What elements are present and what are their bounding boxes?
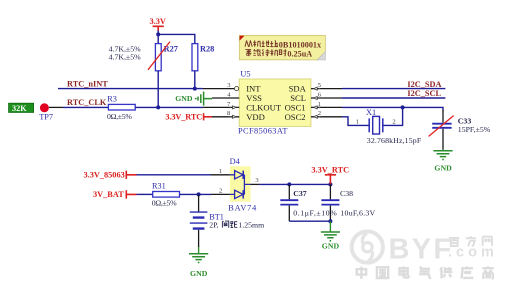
svg-text:OSC2: OSC2 xyxy=(285,112,306,122)
junction 3.3V node xyxy=(156,32,160,36)
svg-text:3V_BAT: 3V_BAT xyxy=(93,190,124,199)
note yellow sticky xyxy=(239,35,325,60)
svg-text:I2C_SCL: I2C_SCL xyxy=(407,89,441,98)
svg-text:I2C_SDA: I2C_SDA xyxy=(407,80,441,89)
capacitor C37 xyxy=(280,184,306,221)
pin 1 of D4 xyxy=(211,168,230,175)
wire 3.3V_85063 to D4 pin1 xyxy=(137,174,212,176)
svg-text:GND: GND xyxy=(175,94,193,103)
port 32K xyxy=(9,103,34,113)
svg-text:15PF,±5%: 15PF,±5% xyxy=(458,125,491,134)
DNP slash on R27 xyxy=(148,42,170,70)
crystal X1 xyxy=(356,108,396,134)
junction R27/CLK xyxy=(156,105,160,109)
wire R31 to D4 pin2 xyxy=(180,193,211,195)
svg-text:U5: U5 xyxy=(240,69,250,78)
pin 2 of D4 xyxy=(211,187,230,194)
wire 3.3V to resistors xyxy=(158,31,195,44)
IC U5 PCF85063AT xyxy=(238,69,311,135)
capacitor C33 xyxy=(429,110,472,150)
svg-text:RTC_nINT: RTC_nINT xyxy=(67,79,108,88)
wire D4 pin3 to C38 xyxy=(259,183,330,185)
svg-text:BAV74: BAV74 xyxy=(228,203,257,212)
power port 3V_BAT xyxy=(93,190,137,199)
svg-text:2: 2 xyxy=(392,119,395,126)
junction OSC1/X1 xyxy=(401,105,405,109)
svg-text:32.768kHz,15pF: 32.768kHz,15pF xyxy=(367,136,422,145)
resistor R28 xyxy=(192,44,214,71)
pin 4 wire xyxy=(212,91,239,98)
value label BT1 2P,间距1.25mm xyxy=(209,221,264,230)
svg-text:R31: R31 xyxy=(152,181,166,190)
wire TP7 to R3 xyxy=(63,106,108,108)
pin 2 wire xyxy=(311,110,342,118)
wire R3 to pin7 xyxy=(135,106,203,108)
pin 1 wire xyxy=(311,101,342,109)
wire RTC_nINT xyxy=(58,88,203,90)
svg-text:.com: .com xyxy=(448,245,498,261)
wire C37 bottom to C38 bottom xyxy=(289,220,330,222)
svg-text:VDD: VDD xyxy=(246,112,265,122)
ground symbol below C38 xyxy=(321,221,340,250)
svg-text:0Ω,±5%: 0Ω,±5% xyxy=(107,112,132,121)
svg-text:2P,: 2P, xyxy=(209,221,218,230)
svg-text:0Ω,±5%: 0Ω,±5% xyxy=(152,199,177,208)
junction BT1 node xyxy=(197,192,201,196)
junction C38 top xyxy=(328,182,332,186)
svg-text:C37: C37 xyxy=(293,189,307,198)
power port 3.3V_85063 xyxy=(84,171,137,180)
svg-text:C33: C33 xyxy=(458,116,472,125)
svg-text:3.3V_85063: 3.3V_85063 xyxy=(84,171,125,180)
wire 3V_BAT to R31 xyxy=(137,193,153,195)
svg-text:C38: C38 xyxy=(340,189,353,198)
svg-text:3.3V_RTC: 3.3V_RTC xyxy=(165,112,202,121)
power port 3.3V_RTC at pin8 xyxy=(165,112,212,121)
svg-text:R27: R27 xyxy=(164,45,178,54)
wire I2C_SCL xyxy=(342,97,445,99)
diode D4 BAV74 xyxy=(228,157,257,213)
svg-text:0.25uA: 0.25uA xyxy=(287,49,312,58)
svg-text:10uF,6.3V: 10uF,6.3V xyxy=(340,208,375,217)
ground symbol below C33 xyxy=(433,149,452,172)
junction R28/nINT xyxy=(193,87,197,91)
wire R28 bottom to RTC_nINT xyxy=(194,71,196,89)
wire OSC2 to crystal xyxy=(342,107,403,125)
svg-text:2: 2 xyxy=(318,110,321,117)
svg-text:PCF85063AT: PCF85063AT xyxy=(238,127,288,136)
junction C38 bottom xyxy=(328,219,332,223)
svg-text:1: 1 xyxy=(318,101,321,108)
pin 5 wire xyxy=(311,82,342,90)
svg-text:0B1010001x: 0B1010001x xyxy=(279,40,322,49)
wire TP7 pin xyxy=(49,106,63,108)
pin 3 wire with inversion bubble xyxy=(203,82,239,91)
pin 8 wire xyxy=(212,110,239,118)
pin 6 wire xyxy=(311,91,342,99)
svg-text:4.7K,±5%: 4.7K,±5% xyxy=(109,52,142,61)
resistor R31 xyxy=(152,181,180,197)
testpoint TP7 xyxy=(39,103,53,121)
watermark 中国电气供应商 xyxy=(357,266,494,279)
svg-text:3.3V_RTC: 3.3V_RTC xyxy=(311,165,349,174)
capacitor C38 xyxy=(321,184,353,221)
power port 3.3V_RTC top of C38 xyxy=(311,165,349,184)
wire OSC1 to C33 corner xyxy=(342,107,443,110)
svg-text:GND: GND xyxy=(322,242,340,251)
svg-text:2: 2 xyxy=(219,187,222,194)
ground symbol at VSS pin4 xyxy=(175,92,212,106)
pin 3 of D4 xyxy=(251,177,260,184)
note text line1 从机地址0B1010001x xyxy=(245,40,278,47)
watermark 百方网 xyxy=(449,236,492,246)
svg-text:3.3V: 3.3V xyxy=(150,17,166,26)
svg-text:TP7: TP7 xyxy=(39,113,53,122)
svg-text:1.25mm: 1.25mm xyxy=(238,221,264,230)
junction C37 top xyxy=(287,182,291,186)
svg-text:RTC_CLK: RTC_CLK xyxy=(67,98,107,107)
svg-text:GND: GND xyxy=(190,269,208,278)
watermark logo circle xyxy=(352,231,383,262)
wire I2C_SDA xyxy=(342,88,445,90)
svg-text:D4: D4 xyxy=(230,157,241,166)
pin 7 wire xyxy=(203,101,239,109)
svg-text:32K: 32K xyxy=(12,104,27,113)
svg-text:R28: R28 xyxy=(200,45,214,54)
wire R27 bottom to RTC_CLK xyxy=(157,71,159,108)
note text line2 系统待机时0.25uA xyxy=(245,49,286,56)
svg-text:BYF: BYF xyxy=(389,234,454,266)
ground symbol below BT1 xyxy=(189,247,208,278)
svg-text:R3: R3 xyxy=(107,94,117,103)
svg-text:GND: GND xyxy=(434,163,452,172)
resistor R27 xyxy=(155,44,177,71)
svg-text:1: 1 xyxy=(356,119,359,126)
resistor R3 xyxy=(107,94,135,110)
power port 3.3V xyxy=(150,17,166,31)
battery BT1 xyxy=(190,194,224,247)
svg-text:1: 1 xyxy=(219,168,222,175)
